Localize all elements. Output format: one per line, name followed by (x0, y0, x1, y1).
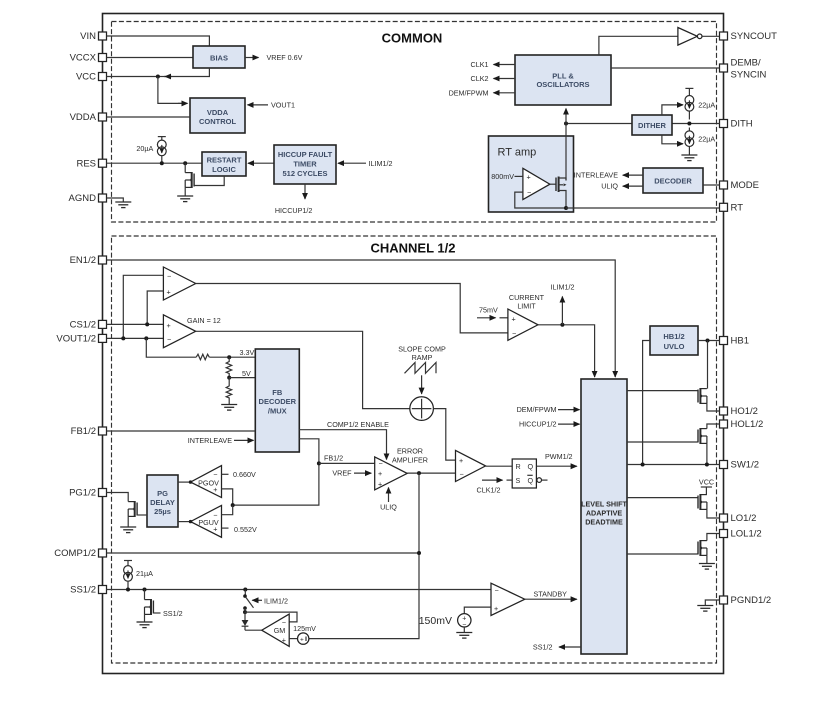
op-amp RT amp (491, 168, 550, 199)
comparator STANDBY (491, 583, 525, 615)
label SLOPE COMP RAMP (398, 344, 446, 362)
transistor LOL FET (698, 534, 720, 564)
pin DEMB/SYNCIN (720, 58, 767, 81)
pin VOUT1/2 (56, 334, 106, 345)
svg-text:VCCX: VCCX (70, 53, 97, 64)
wire HICCUP1/2 into LEVEL SHIFT (519, 420, 580, 429)
svg-text:800mV: 800mV (491, 172, 514, 181)
svg-text:20µA: 20µA (136, 144, 153, 153)
svg-text:HICCUP FAULT: HICCUP FAULT (278, 150, 333, 159)
svg-text:VIN: VIN (80, 31, 96, 42)
block PG DELAY 25us (147, 475, 178, 527)
svg-text:/MUX: /MUX (268, 406, 287, 415)
block BIAS (193, 46, 245, 68)
svg-text:HB1/2: HB1/2 (663, 332, 684, 341)
svg-text:−: − (167, 271, 171, 280)
wire VOUT1/2 line (107, 337, 164, 339)
svg-text:+: + (512, 314, 516, 323)
current source 22uA upper (685, 88, 715, 119)
svg-text:DELAY: DELAY (150, 498, 175, 507)
svg-text:DEADTIME: DEADTIME (585, 517, 623, 526)
svg-text:DEM/FPWM: DEM/FPWM (517, 405, 557, 414)
svg-text:ILIM1/2: ILIM1/2 (369, 159, 393, 168)
pin CS1/2 (70, 320, 107, 331)
block DITHER (632, 115, 672, 135)
ground 22uA lower (681, 155, 697, 161)
node RT line junction (564, 206, 568, 210)
pin MODE (720, 180, 760, 191)
pin SS1/2 (70, 585, 106, 596)
svg-text:ERROR: ERROR (397, 447, 423, 456)
wire COMP vertical rail (309, 473, 419, 638)
wire INTERLEAVE into FB DECODER (188, 436, 254, 445)
pin HB1 (720, 336, 749, 347)
svg-text:ILIM1/2: ILIM1/2 (551, 282, 575, 291)
outer IC boundary box (103, 14, 724, 674)
wire ULIQ into error amp (380, 488, 397, 512)
wire VOUT branch down to divider (146, 338, 196, 357)
pin AGND (69, 193, 107, 204)
svg-text:VOUT1/2: VOUT1/2 (56, 334, 96, 345)
svg-text:5V: 5V (242, 369, 251, 378)
svg-text:VCC: VCC (699, 477, 714, 486)
svg-text:RAMP: RAMP (412, 353, 433, 362)
block VDDA CONTROL (190, 98, 245, 133)
node SS/FET junction (143, 588, 147, 592)
svg-text:SW1/2: SW1/2 (731, 460, 760, 471)
svg-text:3.3V: 3.3V (240, 348, 255, 357)
pin EN1/2 (70, 255, 107, 266)
svg-text:VCC: VCC (76, 72, 96, 83)
svg-text:VDDA: VDDA (207, 108, 229, 117)
wire LOL gate from LEVEL SHIFT (627, 553, 698, 555)
wire SS1/2 line (107, 589, 492, 591)
wire EN1/2 line into LEVEL SHIFT top (107, 260, 616, 377)
svg-text:ADAPTIVE: ADAPTIVE (586, 508, 623, 517)
transistor RES FET (185, 163, 224, 196)
node VOUT junction 2 (144, 336, 148, 340)
source 150mV (419, 614, 471, 630)
svg-text:ULIQ: ULIQ (601, 182, 618, 191)
pin HOL1/2 (720, 419, 764, 430)
svg-text:DECODER: DECODER (259, 397, 297, 406)
svg-text:CS1/2: CS1/2 (70, 320, 96, 331)
ground LOL FET (699, 564, 715, 570)
node SW junction right (705, 463, 709, 467)
wire RT amp feedback loop (515, 192, 566, 208)
wire FB1/2 pin to FB DECODER (107, 430, 256, 432)
wire COMP1/2 pin line (107, 552, 420, 554)
transistor LO FET (698, 494, 720, 518)
wire VOUT1 input (248, 101, 295, 110)
wire VCC node to VDDA CONTROL (158, 77, 188, 104)
svg-text:VREF: VREF (332, 469, 352, 478)
pin COMP1/2 (54, 548, 106, 559)
node VCC junction (156, 75, 160, 79)
ground divider (221, 405, 237, 411)
svg-text:PG: PG (157, 489, 168, 498)
svg-text:−: − (527, 188, 531, 197)
node switch lower junction (243, 608, 247, 614)
comparator PGOV (191, 466, 222, 498)
wire VIN to BIAS top (107, 36, 210, 46)
COMMON dashed box (112, 22, 717, 223)
wire SS1/2 output from LEVEL SHIFT (533, 643, 581, 652)
wire summing output to PWM comparator plus (433, 409, 455, 461)
wire PWM comparator output to flip-flop R (486, 465, 513, 467)
svg-text:UVLO: UVLO (664, 342, 685, 351)
node SS/21uA junction (126, 588, 130, 592)
wire 0.552V reference (222, 525, 257, 534)
node DITH junction (687, 122, 691, 126)
svg-text:+: + (167, 287, 171, 296)
comparator PGUV (191, 505, 222, 537)
svg-text:125mV: 125mV (293, 624, 316, 633)
pin DITH (720, 119, 753, 130)
svg-text:PWM1/2: PWM1/2 (545, 452, 573, 461)
wire DEM/FPWM output (449, 88, 515, 97)
svg-text:+: + (459, 456, 463, 465)
svg-text:SYNCIN: SYNCIN (731, 70, 767, 81)
svg-text:SS1/2: SS1/2 (70, 585, 96, 596)
wire STANDBY output to LEVEL SHIFT (525, 590, 577, 600)
svg-text:21µA: 21µA (136, 569, 153, 578)
node COMP output junction (417, 471, 421, 475)
svg-text:RT: RT (731, 203, 744, 214)
node SS/switch junction (243, 588, 247, 592)
transistor HO FET (698, 388, 720, 411)
amplifier ERROR AMPLIFIER (375, 447, 428, 490)
pin RES (76, 158, 106, 169)
wire standby plus to 150mV (464, 607, 491, 614)
svg-text:VOUT1: VOUT1 (271, 101, 295, 110)
wire CS amp output to summing node (196, 331, 410, 408)
svg-text:LO1/2: LO1/2 (731, 513, 757, 524)
svg-text:HB1: HB1 (731, 336, 749, 347)
svg-text:HO1/2: HO1/2 (731, 406, 758, 417)
svg-text:512 CYCLES: 512 CYCLES (282, 169, 327, 178)
pin HO1/2 (720, 406, 758, 417)
wire RT node up into PLL (565, 109, 567, 124)
svg-text:STANDBY: STANDBY (534, 590, 568, 599)
CHANNEL 1/2 dashed box (112, 236, 717, 663)
wire 0.660V reference (222, 470, 256, 479)
svg-text:RES: RES (76, 158, 96, 169)
wire RT FET drain up to DITH node (565, 124, 567, 181)
node 5V (227, 369, 255, 380)
pin FB1/2 (71, 426, 107, 437)
svg-text:HOL1/2: HOL1/2 (731, 419, 764, 430)
node SW junction left (641, 463, 645, 467)
svg-text:SYNCOUT: SYNCOUT (731, 31, 778, 42)
wire HB1/2 UVLO left to SW rail (643, 341, 650, 465)
svg-text:HICCUP1/2: HICCUP1/2 (519, 420, 557, 429)
svg-text:TIMER: TIMER (293, 160, 317, 169)
svg-text:CHANNEL 1/2: CHANNEL 1/2 (370, 241, 455, 256)
svg-text:CLK2: CLK2 (471, 74, 489, 83)
wire DITHER top to 22uA upper (662, 105, 683, 115)
svg-text:ILIM1/2: ILIM1/2 (264, 596, 288, 605)
svg-text:−: − (512, 329, 516, 338)
node VOUT junction 1 (121, 336, 125, 340)
wire CLK1 output (471, 60, 515, 69)
block FB DECODER /MUX (255, 349, 299, 452)
wire INTERLEAVE output (574, 171, 643, 180)
wire EN comparator output to current limit (196, 284, 508, 333)
wire HO gate from LEVEL SHIFT (627, 390, 698, 392)
wire PGUV minus to FB rail (222, 505, 233, 515)
pin LOL1/2 (720, 529, 762, 540)
pin RT (720, 203, 744, 214)
node 3.3V (227, 348, 254, 359)
summing junction (410, 397, 434, 421)
svg-text:COMP1/2: COMP1/2 (54, 548, 96, 559)
svg-text:RT amp: RT amp (498, 147, 537, 159)
wire DITHER bottom to 22uA lower (662, 135, 683, 144)
switch ILIM1/2 (243, 590, 288, 610)
node CS junction (145, 322, 149, 326)
svg-text:HICCUP1/2: HICCUP1/2 (275, 206, 313, 215)
svg-text:DEM/FPWM: DEM/FPWM (449, 88, 489, 97)
wire PGND1/2 to ground (705, 600, 719, 606)
node PG rail junction (231, 503, 235, 507)
svg-text:INTERLEAVE: INTERLEAVE (574, 171, 618, 180)
flip-flop RS (512, 459, 547, 488)
ground PGND (697, 606, 713, 612)
wire FB1/2 to error amp minus (319, 462, 375, 464)
buffer SYNCOUT (678, 28, 720, 46)
svg-text:PGND1/2: PGND1/2 (731, 595, 772, 606)
svg-text:+: + (378, 469, 382, 478)
wire VCC line (107, 76, 158, 78)
svg-text:RESTART: RESTART (207, 155, 242, 164)
svg-text:AGND: AGND (69, 193, 97, 204)
wire VOUT branch to EN comparator minus (123, 275, 163, 338)
wire RES line (107, 162, 203, 164)
svg-text:Q: Q (528, 462, 534, 471)
diode SS clamp (242, 612, 249, 630)
wire CLK2 output (471, 74, 515, 83)
svg-text:22µA: 22µA (698, 135, 715, 144)
svg-text:25µs: 25µs (154, 507, 171, 516)
pin VCC (76, 72, 107, 83)
svg-text:MODE: MODE (731, 180, 760, 191)
svg-text:DITHER: DITHER (638, 121, 667, 130)
wire RT line to pin (566, 207, 720, 209)
transistor HOL FET (698, 424, 720, 465)
wire switch to GM minus (245, 612, 297, 622)
wire ILIM1/2 up arrow (551, 282, 575, 325)
current source 21uA (124, 561, 154, 590)
ground PG FET (120, 527, 136, 533)
svg-text:DECODER: DECODER (654, 177, 692, 186)
wire DECODER to MODE pin (703, 184, 720, 186)
wire PGUV output to PG DELAY (178, 520, 192, 523)
wire DEMB/SYNCIN (611, 67, 720, 69)
wire DITH line (566, 123, 720, 125)
wire FB1/2 net from FB DECODER (233, 439, 343, 505)
wire LO gate from LEVEL SHIFT (627, 497, 698, 499)
wire VDDA pin to VDDA CONTROL (107, 116, 191, 118)
svg-text:Q: Q (528, 476, 534, 485)
amplifier GM (262, 614, 290, 646)
block LEVEL SHIFT ADAPTIVE DEADTIME (581, 379, 628, 654)
node RES/20uA junction (160, 161, 164, 165)
svg-text:−: − (460, 469, 464, 478)
svg-text:GAIN = 12: GAIN = 12 (187, 316, 221, 325)
wire GM output to diode (245, 629, 262, 631)
pin PG1/2 (69, 488, 106, 499)
svg-text:+: + (378, 479, 382, 488)
svg-text:EN1/2: EN1/2 (70, 255, 96, 266)
svg-text:BIAS: BIAS (210, 53, 228, 62)
block DECODER (643, 168, 703, 193)
current source 20uA (136, 137, 166, 164)
ground SS FET (137, 622, 153, 628)
transistor SS FET (145, 590, 183, 623)
wire HICCUP to RESTART arrow (248, 162, 274, 164)
svg-text:VREF 0.6V: VREF 0.6V (267, 53, 303, 62)
comparator CURRENT LIMIT (508, 293, 545, 341)
wire HOL gate from LEVEL SHIFT (627, 441, 698, 443)
comparator EN (163, 267, 195, 300)
wire VREF 0.6V output (245, 53, 303, 62)
svg-text:INTERLEAVE: INTERLEAVE (188, 436, 232, 445)
svg-text:ULIQ: ULIQ (380, 502, 397, 511)
svg-text:DITH: DITH (731, 119, 753, 130)
source 125mV (289, 624, 316, 644)
svg-text:22µA: 22µA (698, 101, 715, 110)
ground AGND (115, 202, 131, 208)
wire AGND (107, 198, 124, 202)
wire ILIM1/2 into HICCUP (338, 159, 392, 168)
svg-text:VDDA: VDDA (70, 112, 97, 123)
svg-text:COMMON: COMMON (382, 31, 443, 46)
transistor RT FET (550, 177, 567, 209)
wire HICCUP1/2 output (275, 184, 313, 215)
ground 150mV (456, 627, 472, 638)
pin VCCX (70, 53, 107, 64)
wire 75mV into current limit (477, 306, 508, 318)
wire HB node down to HO FET drain (707, 341, 709, 389)
wire SW1/2 line (627, 464, 720, 466)
wire DEM/FPWM into LEVEL SHIFT (517, 405, 580, 414)
node current limit junction (560, 323, 564, 327)
node COMP pin junction (417, 551, 421, 555)
svg-text:0.660V: 0.660V (233, 470, 256, 479)
pin LO1/2 (720, 513, 757, 524)
block RESTART LOGIC (202, 152, 246, 176)
wire PGOV plus to FB rail (222, 489, 233, 505)
svg-text:+: + (300, 637, 304, 644)
svg-text:DEMB/: DEMB/ (731, 58, 761, 69)
svg-text:CLK1/2: CLK1/2 (477, 486, 501, 495)
svg-text:PGUV: PGUV (198, 518, 219, 527)
svg-text:COMP1/2 ENABLE: COMP1/2 ENABLE (327, 420, 389, 429)
svg-text:−: − (282, 618, 286, 627)
svg-text:−: − (167, 335, 171, 344)
svg-text:AMPLIFER: AMPLIFER (392, 455, 428, 464)
pin PGND1/2 (720, 595, 772, 606)
wire CS1/2 line (107, 323, 164, 325)
supply VCC (699, 477, 714, 494)
svg-text:FB1/2: FB1/2 (71, 426, 96, 437)
wire VREF into error amp (332, 469, 371, 478)
wire current limit output (538, 325, 595, 377)
svg-text:+: + (527, 173, 531, 182)
block PLL & OSCILLATORS (515, 55, 611, 105)
wire PWM1/2 to LEVEL SHIFT (536, 452, 576, 466)
node RES/FET junction (183, 161, 187, 165)
node HB junction (706, 339, 710, 343)
svg-text:−: − (379, 459, 383, 468)
comparator current sense GAIN = 12 (163, 315, 220, 348)
block HB1/2 UVLO (650, 326, 698, 355)
svg-text:FB: FB (272, 388, 283, 397)
wire ramp into summing junction (421, 375, 423, 394)
svg-text:LEVEL SHIFT: LEVEL SHIFT (581, 499, 627, 508)
resistor divider mid (226, 357, 232, 377)
svg-text:SS1/2: SS1/2 (163, 609, 183, 618)
svg-text:SS1/2: SS1/2 (533, 643, 553, 652)
pin VDDA (70, 112, 107, 123)
comparator PWM (456, 450, 486, 481)
wire PG1/2 pin to PG FET (107, 493, 129, 502)
node PLL/RT junction (564, 122, 568, 126)
node FB1/2 junction (317, 461, 321, 465)
svg-text:+: + (282, 636, 286, 645)
svg-text:150mV: 150mV (419, 615, 452, 627)
block RT amp (489, 136, 574, 212)
svg-text:CONTROL: CONTROL (199, 117, 236, 126)
svg-text:PGOV: PGOV (198, 478, 219, 487)
block HICCUP FAULT TIMER 512 CYCLES (274, 145, 336, 184)
svg-text:GM: GM (274, 626, 286, 635)
svg-text:−: − (495, 586, 499, 595)
ground RES FET (177, 196, 193, 202)
pin VIN (80, 31, 106, 42)
svg-text:CLK1: CLK1 (471, 60, 489, 69)
resistor divider bottom (226, 378, 232, 405)
wire CLK1/2 into flip-flop S (477, 480, 513, 494)
svg-text:S: S (516, 476, 521, 485)
svg-text:R: R (516, 462, 521, 471)
wire ULIQ output (601, 182, 643, 191)
resistor divider top (196, 354, 255, 360)
wire PGOV output to PG DELAY (178, 480, 192, 483)
svg-text:0.552V: 0.552V (234, 525, 257, 534)
svg-text:LOGIC: LOGIC (212, 165, 236, 174)
pin SYNCOUT (720, 31, 778, 42)
wire error amp output (407, 472, 455, 474)
svg-text:OSCILLATORS: OSCILLATORS (536, 80, 589, 89)
wire HB1/2 UVLO to HB1 pin (698, 340, 720, 342)
svg-text:LOL1/2: LOL1/2 (731, 529, 762, 540)
wire BIAS bottom to VCC node (158, 68, 210, 77)
svg-text:+: + (494, 604, 498, 613)
svg-text:PG1/2: PG1/2 (69, 488, 96, 499)
pin SW1/2 (720, 460, 760, 471)
wire PLL top to SYNCOUT buffer (599, 36, 678, 55)
wire COMP1/2 ENABLE to error amp (299, 420, 389, 459)
svg-text:FB1/2: FB1/2 (324, 453, 343, 462)
transistor PG FET (128, 501, 147, 527)
wire VCCX to BIAS (107, 57, 194, 59)
sawtooth ramp symbol (405, 363, 437, 374)
svg-text:LIMIT: LIMIT (517, 301, 536, 310)
current source 22uA lower (685, 128, 715, 156)
wire CS branch to EN comparator plus (147, 291, 163, 324)
